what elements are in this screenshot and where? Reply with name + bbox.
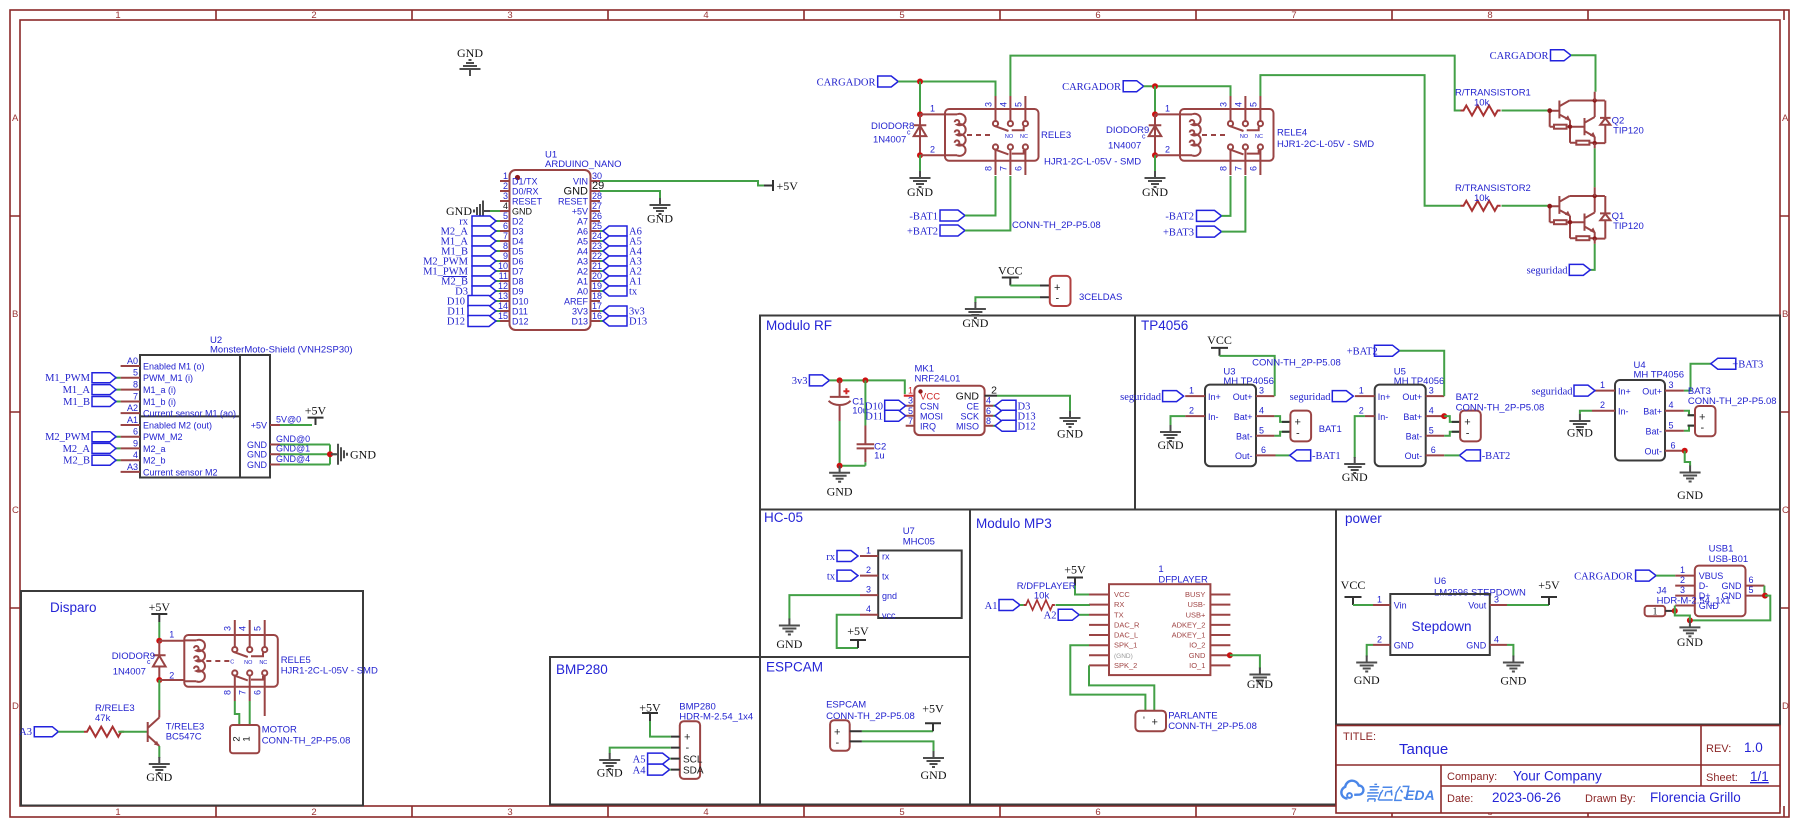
svg-text:Vin: Vin xyxy=(1394,601,1407,611)
svg-text:Tanque: Tanque xyxy=(1399,741,1448,758)
net flag +BAT3 relay xyxy=(1197,226,1222,237)
svg-text:10k: 10k xyxy=(1474,98,1490,109)
net flag rx hc05 xyxy=(837,551,858,562)
junction xyxy=(837,377,843,383)
diode DIODOR9 1N4007 xyxy=(153,641,166,680)
svg-text:VCC: VCC xyxy=(1114,590,1130,599)
wire relay3 pin4 long to R1 xyxy=(1010,56,1460,111)
wire diode to gnd xyxy=(919,155,921,172)
svg-text:22: 22 xyxy=(592,251,602,261)
net flag CARGADOR 1 xyxy=(878,76,899,87)
net flags arduino right xyxy=(600,226,647,328)
svg-text:Bat+: Bat+ xyxy=(1643,406,1662,416)
svg-text:SCL: SCL xyxy=(683,755,703,766)
svg-text:6: 6 xyxy=(252,690,262,695)
net flag D13 xyxy=(603,316,627,326)
svg-text:+5V: +5V xyxy=(572,207,588,217)
svg-text:Vout: Vout xyxy=(1468,601,1487,611)
transistor Q1 TIP120 xyxy=(1547,194,1610,241)
power +5V hc05 xyxy=(850,640,866,648)
svg-text:7: 7 xyxy=(1291,10,1296,21)
svg-text:D12: D12 xyxy=(1018,422,1036,433)
svg-text:M1_B: M1_B xyxy=(63,397,90,408)
svg-text:c: c xyxy=(907,130,911,137)
net flag M1_PWM xyxy=(472,266,496,276)
wires U5 bat to BAT2 xyxy=(1444,416,1460,436)
svg-text:GND: GND xyxy=(1354,673,1380,687)
wire U4 out+ to +BAT3 xyxy=(1684,364,1711,391)
wire C2 bottom xyxy=(840,462,866,466)
svg-text:D2: D2 xyxy=(512,217,524,227)
junction usb xyxy=(1762,593,1768,599)
net flag A6 xyxy=(603,226,627,236)
svg-text:A2: A2 xyxy=(577,267,588,277)
svg-text:D11: D11 xyxy=(512,307,528,317)
relay pin wires xyxy=(920,114,945,155)
junction xyxy=(156,638,162,644)
svg-text:16: 16 xyxy=(592,311,602,321)
svg-text:seguridad: seguridad xyxy=(1527,266,1569,277)
relay RELE5 xyxy=(169,620,277,701)
svg-text:HJR1-2C-L-05V - SMD: HJR1-2C-L-05V - SMD xyxy=(1277,139,1374,150)
ground bmp xyxy=(599,753,620,769)
svg-text:18: 18 xyxy=(592,291,602,301)
svg-text:GND: GND xyxy=(1466,640,1487,650)
svg-text:6: 6 xyxy=(1095,807,1100,818)
svg-text:26: 26 xyxy=(592,211,602,221)
svg-text:2: 2 xyxy=(311,10,316,21)
nrf pin stubs right xyxy=(985,395,997,397)
resistor R/DFPLAYER 10k xyxy=(1024,600,1055,610)
junction xyxy=(862,377,868,383)
wire collector xyxy=(158,680,160,710)
TP4056 CONTENT xyxy=(1120,333,1776,502)
svg-text:D4: D4 xyxy=(512,237,524,247)
EDA logo xyxy=(1341,781,1434,803)
ground espcam xyxy=(923,751,944,767)
svg-text:Stepdown: Stepdown xyxy=(1412,619,1472,634)
svg-text:': ' xyxy=(1143,716,1145,727)
svg-text:In-: In- xyxy=(1208,412,1219,422)
junction xyxy=(327,451,333,457)
junction xyxy=(917,152,923,158)
svg-text:1: 1 xyxy=(1653,607,1658,618)
title block grid xyxy=(1336,726,1780,814)
svg-text:4: 4 xyxy=(1429,406,1434,416)
net flag A5 xyxy=(648,753,670,764)
svg-text:Modulo MP3: Modulo MP3 xyxy=(976,516,1052,531)
svg-text:Bat-: Bat- xyxy=(1645,427,1662,437)
connector MOTOR xyxy=(230,725,259,753)
frame row letters xyxy=(12,113,1789,712)
svg-text:rx: rx xyxy=(826,552,835,563)
svg-text:seguridad: seguridad xyxy=(1120,392,1162,403)
wire usb gnd rail xyxy=(1690,596,1770,621)
ground sideways U2 xyxy=(331,444,347,465)
relay RELE4 xyxy=(1165,96,1274,175)
svg-text:-: - xyxy=(1466,428,1470,440)
svg-text:8: 8 xyxy=(133,380,138,390)
wire C1 to gnd junction xyxy=(839,421,841,466)
ground sideways at pin4 xyxy=(474,201,490,222)
svg-text:6: 6 xyxy=(1095,10,1100,21)
svg-text:A2: A2 xyxy=(1044,611,1057,622)
svg-text:Out+: Out+ xyxy=(1233,392,1253,402)
wire to diode9 xyxy=(1154,86,1156,114)
wires relay5 to motor xyxy=(235,701,250,725)
svg-text:4: 4 xyxy=(503,201,508,211)
svg-text:Out-: Out- xyxy=(1405,451,1423,461)
net flag CARGADOR 4 xyxy=(1636,570,1657,581)
svg-text:Modulo RF: Modulo RF xyxy=(766,318,832,333)
svg-text:BMP280: BMP280 xyxy=(556,662,608,677)
svg-text:A3: A3 xyxy=(19,727,32,738)
svg-text:D10: D10 xyxy=(512,297,529,307)
svg-text:RELE3: RELE3 xyxy=(1041,130,1071,141)
svg-text:In+: In+ xyxy=(1378,392,1391,402)
svg-text:25: 25 xyxy=(592,221,602,231)
svg-text:5: 5 xyxy=(908,406,913,416)
svg-text:D: D xyxy=(12,701,19,712)
svg-text:SPK_1: SPK_1 xyxy=(1114,641,1137,650)
svg-text:A0: A0 xyxy=(577,287,588,297)
svg-text:GND: GND xyxy=(457,46,483,60)
svg-text:GND@0: GND@0 xyxy=(276,434,310,444)
section box TP4056 xyxy=(1135,316,1780,510)
svg-text:1/1: 1/1 xyxy=(1750,769,1769,784)
svg-text:D12: D12 xyxy=(512,317,529,327)
svg-text:A4: A4 xyxy=(633,765,647,776)
net flag A4 xyxy=(603,246,627,256)
svg-text:A5: A5 xyxy=(577,237,588,247)
net flag D12 xyxy=(993,425,995,427)
svg-text:5: 5 xyxy=(1429,425,1434,435)
net flag M2_PWM xyxy=(92,432,116,442)
svg-text:HJR1-2C-L-05V - SMD: HJR1-2C-L-05V - SMD xyxy=(281,666,378,677)
net flag -BAT1 out xyxy=(1276,454,1290,456)
svg-text:3: 3 xyxy=(507,807,512,818)
svg-text:27: 27 xyxy=(592,201,602,211)
wire VCC to U3 out+ xyxy=(1220,356,1275,396)
svg-text:B: B xyxy=(12,309,18,320)
ARDUINO NANO AREA xyxy=(423,46,798,330)
svg-text:1: 1 xyxy=(1189,386,1194,396)
relay4 pin wires xyxy=(1155,114,1180,155)
section box power xyxy=(1336,510,1780,725)
svg-text:Bat-: Bat- xyxy=(1406,432,1423,442)
U2 right pin names xyxy=(247,421,268,471)
svg-text:DAC_L: DAC_L xyxy=(1114,631,1138,640)
svg-text:-: - xyxy=(1701,422,1705,434)
svg-text:3: 3 xyxy=(1259,386,1264,396)
frame column ticks bottom xyxy=(216,806,1784,817)
svg-text:15: 15 xyxy=(498,311,508,321)
section box HC-05 xyxy=(760,510,970,658)
svg-text:24: 24 xyxy=(592,231,602,241)
svg-text:3v3: 3v3 xyxy=(792,376,808,387)
svg-text:-: - xyxy=(1056,293,1060,305)
POWER SECTION CONTENT xyxy=(1341,544,1771,688)
svg-text:3: 3 xyxy=(1680,585,1685,595)
capacitor C2 1u xyxy=(864,380,866,425)
wire cargador2 to relay4 xyxy=(1144,86,1231,96)
ground RF xyxy=(829,466,850,482)
power +5V dfplayer xyxy=(1067,578,1083,586)
net flag 3v3 xyxy=(603,306,627,316)
svg-text:B: B xyxy=(1782,309,1788,320)
svg-text:GND@4: GND@4 xyxy=(276,454,310,464)
svg-text:TITLE:: TITLE: xyxy=(1343,731,1376,743)
svg-text:VCC: VCC xyxy=(998,264,1023,278)
svg-text:3V3: 3V3 xyxy=(572,307,588,317)
net flag M1_B xyxy=(472,246,496,256)
svg-text:M1_PWM: M1_PWM xyxy=(45,373,91,384)
svg-text:Your Company: Your Company xyxy=(1513,769,1602,784)
net flag M1_A xyxy=(472,236,496,246)
MODULO RF CONTENT xyxy=(792,364,1084,499)
svg-text:2: 2 xyxy=(1189,406,1194,416)
section box BMP280 xyxy=(550,657,760,805)
svg-text:VCC: VCC xyxy=(1341,578,1366,592)
power +5V u6 xyxy=(1541,597,1557,605)
svg-text:MOTOR: MOTOR xyxy=(262,725,297,736)
diode DIODOR8 1N4007 xyxy=(914,125,927,136)
svg-text:GND: GND xyxy=(1342,470,1368,484)
svg-text:D11: D11 xyxy=(865,412,883,423)
svg-text:M1_A: M1_A xyxy=(63,385,91,396)
svg-text:4: 4 xyxy=(1259,406,1264,416)
svg-text:1: 1 xyxy=(866,546,871,556)
svg-text:6: 6 xyxy=(1431,445,1436,455)
svg-text:7: 7 xyxy=(133,392,138,402)
svg-text:4: 4 xyxy=(703,10,708,21)
net flag D10 xyxy=(468,296,496,307)
svg-text:DAC_R: DAC_R xyxy=(1114,620,1140,629)
svg-text:6: 6 xyxy=(1749,575,1754,585)
svg-text:Drawn By:: Drawn By: xyxy=(1585,793,1636,805)
svg-text:MISO: MISO xyxy=(956,422,979,432)
power VCC u6 xyxy=(1345,597,1362,605)
svg-text:7: 7 xyxy=(1291,807,1296,818)
svg-text:A4: A4 xyxy=(577,247,588,257)
svg-text:CARGADOR: CARGADOR xyxy=(1574,571,1633,582)
arduino right pin names xyxy=(558,177,589,327)
svg-text:A0: A0 xyxy=(127,356,138,366)
net flag 3v3 xyxy=(809,375,829,386)
svg-text:-: - xyxy=(1296,428,1300,440)
HC-05 CONTENT xyxy=(776,526,961,651)
svg-text:ADKEY_2: ADKEY_2 xyxy=(1172,620,1206,629)
svg-text:A2: A2 xyxy=(127,403,138,413)
connector BAT2 xyxy=(1452,422,1460,432)
ground 3celdas xyxy=(965,302,986,318)
svg-text:PARLANTE: PARLANTE xyxy=(1168,711,1217,722)
svg-text:GND: GND xyxy=(1247,677,1273,691)
net flag A3 xyxy=(34,727,58,737)
svg-text:BC547C: BC547C xyxy=(166,732,202,743)
svg-text:10k: 10k xyxy=(1474,193,1490,204)
svg-text:3: 3 xyxy=(222,626,232,631)
section box ESPCAM xyxy=(760,657,970,805)
svg-text:8: 8 xyxy=(503,241,508,251)
svg-text:VBUS: VBUS xyxy=(1699,571,1724,581)
U2 left pin stubs xyxy=(121,366,140,472)
net flag +BAT3 xyxy=(1711,358,1736,369)
connector BAT1 xyxy=(1282,422,1290,432)
net flag tx hc05 xyxy=(837,570,858,581)
svg-text:D0/RX: D0/RX xyxy=(512,187,539,197)
svg-text:MHC05: MHC05 xyxy=(903,537,935,548)
svg-text:M2_A: M2_A xyxy=(63,444,91,455)
junction j4 xyxy=(1672,608,1678,614)
connector 3CELDAS xyxy=(1050,276,1071,306)
svg-text:C: C xyxy=(12,505,19,516)
svg-text:4: 4 xyxy=(986,396,991,406)
svg-text:USB-: USB- xyxy=(1187,600,1205,609)
net flag A1 xyxy=(999,600,1020,611)
svg-text:C: C xyxy=(230,660,234,666)
svg-text:GND: GND xyxy=(247,450,268,460)
net flag CARGADOR 2 xyxy=(1123,81,1144,92)
svg-text:2: 2 xyxy=(169,671,174,681)
svg-text:2: 2 xyxy=(1600,400,1605,410)
svg-text:2: 2 xyxy=(503,181,508,191)
svg-text:1: 1 xyxy=(169,630,174,640)
svg-text:tx: tx xyxy=(629,287,638,298)
wire u6 gnd4 xyxy=(1507,645,1513,657)
svg-text:1.0: 1.0 xyxy=(1744,740,1763,755)
ground U4 out- xyxy=(1680,466,1701,482)
ground u6 left xyxy=(1356,656,1377,672)
svg-text:4: 4 xyxy=(1494,634,1499,644)
svg-text:A7: A7 xyxy=(577,217,588,227)
net flag D11 xyxy=(468,306,496,317)
ground GND floating top xyxy=(460,60,481,76)
transistor Q2 TIP120 xyxy=(1547,98,1610,145)
svg-text:4: 4 xyxy=(237,626,247,631)
svg-text:A1: A1 xyxy=(127,415,138,425)
svg-text:A3: A3 xyxy=(127,462,138,472)
svg-text:D7: D7 xyxy=(512,267,524,277)
capacitor C1 10u polarized xyxy=(829,380,851,421)
section box Disparo xyxy=(21,591,363,806)
svg-text:-: - xyxy=(836,737,840,749)
TITLE BLOCK xyxy=(1336,726,1780,814)
wire pin1 xyxy=(159,641,184,680)
svg-text:+5V: +5V xyxy=(847,624,869,638)
wire A2 to TX xyxy=(1079,614,1089,616)
arduino right pin numbers xyxy=(592,171,604,321)
wire GND pin29 xyxy=(600,191,660,199)
power VCC U3 xyxy=(1211,348,1228,356)
wire R1 to Q2 base xyxy=(1502,110,1550,112)
svg-text:In+: In+ xyxy=(1618,386,1631,396)
svg-text:Disparo: Disparo xyxy=(50,600,97,615)
svg-text:2: 2 xyxy=(866,565,871,575)
svg-text:Bat-: Bat- xyxy=(1236,432,1253,442)
svg-text:M2_b: M2_b xyxy=(143,456,166,466)
wire +BAT2 to U5 out+ xyxy=(1400,351,1445,396)
svg-text:Enabled M1 (o): Enabled M1 (o) xyxy=(143,362,205,372)
svg-text:1: 1 xyxy=(115,10,120,21)
net flag seguridad U5 xyxy=(1332,391,1353,402)
svg-text:GND: GND xyxy=(1189,651,1206,660)
svg-text:CARGADOR: CARGADOR xyxy=(817,77,876,88)
resistor R/RELE3 47k xyxy=(84,727,124,737)
svg-text:TX: TX xyxy=(1114,610,1124,619)
svg-text:+5V: +5V xyxy=(639,701,661,715)
svg-text:A1: A1 xyxy=(577,277,588,287)
U2 right pin stubs xyxy=(270,425,280,465)
svg-text:8: 8 xyxy=(222,690,232,695)
svg-text:ESPCAM: ESPCAM xyxy=(766,660,823,675)
svg-text:tx: tx xyxy=(882,571,890,581)
svg-text:8: 8 xyxy=(986,416,991,426)
svg-text:3: 3 xyxy=(503,191,508,201)
svg-text:+: + xyxy=(1152,717,1158,729)
arduino left pin stubs xyxy=(500,181,510,321)
svg-text:C: C xyxy=(1782,505,1789,516)
wire VIN to +5V xyxy=(600,181,764,186)
svg-text:6: 6 xyxy=(503,221,508,231)
wire +5V to relay pin1 xyxy=(158,622,160,641)
svg-text:3: 3 xyxy=(866,585,871,595)
svg-text:1: 1 xyxy=(115,807,120,818)
U2 MONSTERMOTO xyxy=(45,335,376,478)
svg-text:GND: GND xyxy=(1158,438,1184,452)
svg-text:GND: GND xyxy=(647,212,673,226)
ESPCAM CONTENT xyxy=(826,700,947,783)
wire pin4 GND xyxy=(490,210,500,212)
svg-text:RX: RX xyxy=(1114,600,1124,609)
wire nrf gnd xyxy=(997,396,1070,412)
wire SPK_1 to parlante xyxy=(1070,645,1145,711)
svg-text:9: 9 xyxy=(133,438,138,448)
svg-text:1N4007: 1N4007 xyxy=(113,667,146,678)
svg-text:RESET: RESET xyxy=(558,197,589,207)
svg-text:gnd: gnd xyxy=(882,591,897,601)
svg-text:47k: 47k xyxy=(95,713,111,724)
wire A1 to resistor xyxy=(1020,604,1024,606)
svg-text:D13: D13 xyxy=(629,317,647,328)
junction U5 bat+ xyxy=(1441,413,1447,419)
svg-text:6: 6 xyxy=(986,406,991,416)
ground u6 right xyxy=(1503,656,1524,672)
svg-text:seguridad: seguridad xyxy=(1532,386,1574,397)
svg-text:3: 3 xyxy=(908,396,913,406)
svg-text:5: 5 xyxy=(899,10,904,21)
svg-text:EDA: EDA xyxy=(1405,787,1435,803)
wire espcam plus xyxy=(862,730,933,732)
svg-text:+5V: +5V xyxy=(251,421,267,431)
svg-text:D3: D3 xyxy=(512,227,524,237)
U2 body xyxy=(140,355,270,478)
svg-text:+5V: +5V xyxy=(922,702,944,716)
svg-text:In-: In- xyxy=(1618,406,1629,416)
svg-text:seguridad: seguridad xyxy=(1290,392,1332,403)
svg-text:HC-05: HC-05 xyxy=(764,510,803,525)
junction xyxy=(917,111,923,117)
svg-text:(GND): (GND) xyxy=(1114,653,1133,660)
svg-text:TIP120: TIP120 xyxy=(1613,126,1644,137)
ground disparo xyxy=(149,757,170,773)
net flag -BAT1 xyxy=(940,210,965,221)
wire vcc to vin xyxy=(1353,604,1373,606)
net flag tx xyxy=(603,286,627,296)
svg-text:-BAT1: -BAT1 xyxy=(1312,451,1341,462)
svg-text:CONN-TH_2P-P5.08: CONN-TH_2P-P5.08 xyxy=(1168,721,1257,732)
svg-text:Florencia Grillo: Florencia Grillo xyxy=(1650,790,1741,805)
